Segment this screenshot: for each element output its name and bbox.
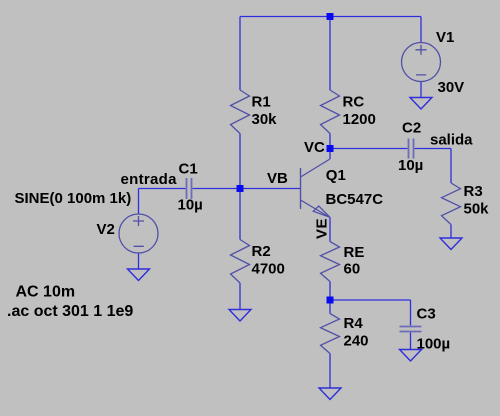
- svg-text:60: 60: [344, 261, 361, 278]
- svg-text:R3: R3: [464, 183, 483, 200]
- svg-text:30k: 30k: [252, 111, 278, 128]
- svg-text:R2: R2: [252, 243, 271, 260]
- svg-text:V1: V1: [436, 29, 454, 46]
- svg-text:R1: R1: [252, 94, 271, 111]
- svg-text:V2: V2: [97, 221, 115, 238]
- svg-text:VC: VC: [304, 139, 325, 156]
- svg-text:240: 240: [344, 333, 369, 350]
- svg-text:AC 10m: AC 10m: [16, 284, 76, 301]
- svg-text:50k: 50k: [464, 201, 490, 218]
- svg-text:100µ: 100µ: [417, 336, 451, 353]
- svg-text:C3: C3: [417, 306, 436, 323]
- svg-text:entrada: entrada: [121, 171, 178, 188]
- svg-text:BC547C: BC547C: [326, 191, 384, 208]
- svg-text:30V: 30V: [438, 79, 465, 96]
- svg-text:C1: C1: [179, 161, 198, 178]
- svg-text:R4: R4: [344, 315, 364, 332]
- svg-text:10µ: 10µ: [178, 197, 203, 214]
- svg-text:1200: 1200: [343, 111, 376, 128]
- svg-text:VE: VE: [314, 218, 331, 239]
- svg-text:Q1: Q1: [326, 167, 346, 184]
- svg-text:10µ: 10µ: [398, 157, 423, 174]
- svg-text:RE: RE: [344, 244, 365, 261]
- svg-text:RC: RC: [343, 94, 365, 111]
- svg-text:salida: salida: [430, 132, 473, 149]
- svg-text:VB: VB: [267, 170, 288, 187]
- svg-text:SINE(0 100m 1k): SINE(0 100m 1k): [15, 190, 132, 207]
- svg-text:C2: C2: [402, 120, 421, 137]
- svg-text:4700: 4700: [252, 261, 285, 278]
- svg-text:.ac oct 301 1 1e9: .ac oct 301 1 1e9: [7, 303, 133, 320]
